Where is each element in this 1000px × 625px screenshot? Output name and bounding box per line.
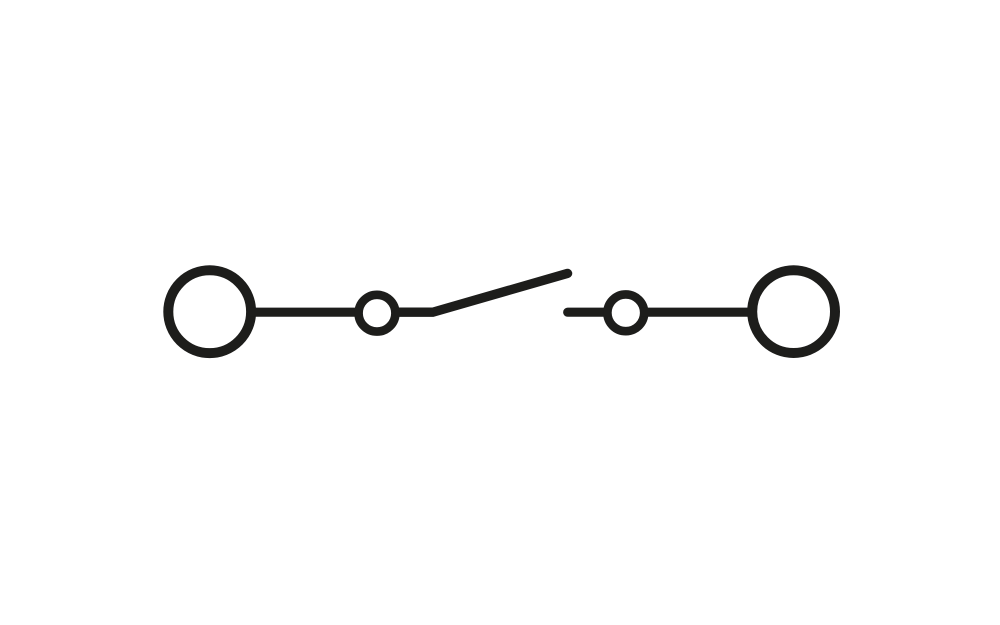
wire with rounded end — [568, 308, 605, 317]
contact point circle right (small) — [607, 294, 644, 331]
wire — [641, 308, 752, 317]
terminal circle left (large) — [168, 270, 251, 353]
wire — [250, 308, 361, 317]
switch blade (open) with feed wire — [399, 273, 568, 312]
terminal circle right (large) — [752, 270, 835, 353]
contact point circle left (small) — [359, 295, 396, 332]
